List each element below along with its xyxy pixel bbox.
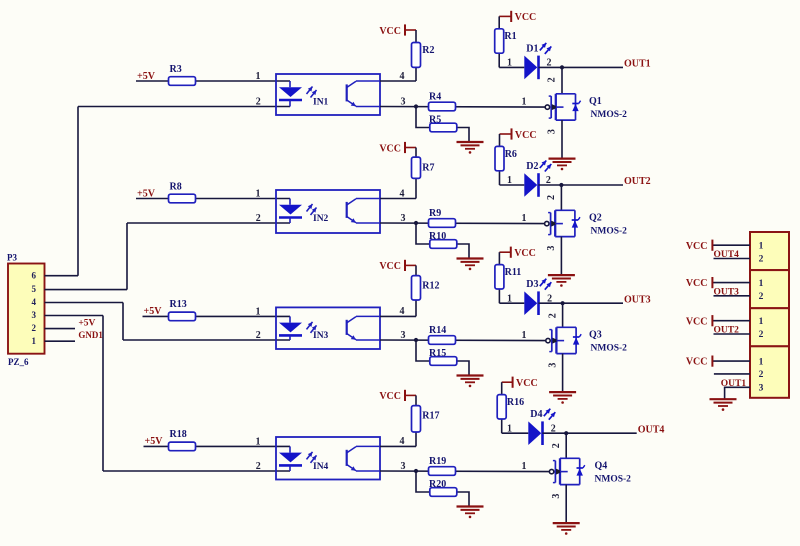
svg-text:D3: D3 (526, 279, 538, 290)
svg-text:2: 2 (759, 330, 764, 340)
svg-text:Q4: Q4 (595, 460, 608, 471)
svg-text:IN2: IN2 (313, 214, 329, 224)
svg-text:3: 3 (401, 330, 406, 341)
svg-text:VCC: VCC (379, 26, 401, 37)
svg-text:R19: R19 (429, 456, 446, 467)
svg-text:R13: R13 (170, 299, 187, 310)
svg-text:OUT1: OUT1 (624, 59, 651, 70)
svg-text:1: 1 (759, 357, 764, 367)
svg-text:R16: R16 (507, 397, 524, 408)
svg-text:VCC: VCC (686, 278, 708, 289)
svg-text:OUT4: OUT4 (638, 424, 665, 435)
svg-text:2: 2 (547, 77, 558, 82)
svg-text:3: 3 (551, 494, 562, 499)
svg-text:2: 2 (759, 255, 764, 265)
svg-text:2: 2 (546, 195, 557, 200)
svg-text:R20: R20 (429, 479, 446, 490)
svg-text:D4: D4 (530, 409, 542, 420)
svg-text:OUT4: OUT4 (714, 250, 740, 260)
svg-text:1: 1 (256, 189, 261, 200)
svg-text:VCC: VCC (379, 261, 401, 272)
svg-text:PZ_6: PZ_6 (8, 357, 29, 367)
svg-text:OUT3: OUT3 (714, 287, 740, 297)
svg-text:D2: D2 (526, 161, 538, 172)
svg-text:R1: R1 (504, 31, 516, 42)
svg-text:1: 1 (522, 330, 527, 341)
svg-text:GND1: GND1 (78, 330, 103, 340)
svg-text:5: 5 (32, 284, 37, 294)
svg-text:3: 3 (759, 384, 764, 394)
svg-text:2: 2 (547, 313, 558, 318)
svg-text:3: 3 (401, 213, 406, 224)
svg-text:R6: R6 (505, 149, 517, 160)
svg-text:VCC: VCC (515, 12, 537, 23)
svg-text:OUT3: OUT3 (624, 294, 651, 305)
svg-text:1: 1 (32, 336, 37, 346)
svg-text:1: 1 (759, 279, 764, 289)
svg-text:VCC: VCC (514, 248, 536, 259)
svg-text:R9: R9 (429, 208, 441, 219)
svg-text:3: 3 (546, 246, 557, 251)
svg-text:R7: R7 (422, 163, 434, 174)
svg-text:D1: D1 (526, 43, 538, 54)
svg-text:1: 1 (759, 317, 764, 327)
svg-text:OUT1: OUT1 (721, 379, 747, 389)
svg-text:1: 1 (522, 461, 527, 472)
svg-text:2: 2 (256, 213, 261, 224)
svg-text:1: 1 (256, 307, 261, 318)
svg-text:3: 3 (547, 129, 558, 134)
svg-text:+5V: +5V (144, 306, 163, 317)
svg-text:3: 3 (547, 363, 558, 368)
svg-text:2: 2 (256, 461, 261, 472)
svg-text:3: 3 (32, 310, 37, 320)
svg-text:VCC: VCC (379, 391, 401, 402)
svg-text:NMOS-2: NMOS-2 (591, 110, 628, 120)
svg-text:3: 3 (401, 97, 406, 108)
svg-text:R11: R11 (505, 267, 522, 278)
svg-text:4: 4 (400, 71, 405, 82)
svg-text:2: 2 (759, 370, 764, 380)
svg-text:2: 2 (551, 443, 562, 448)
svg-text:R3: R3 (170, 64, 182, 75)
svg-text:1: 1 (256, 437, 261, 448)
svg-text:R5: R5 (429, 115, 441, 126)
svg-text:Q3: Q3 (589, 329, 602, 340)
svg-text:R2: R2 (422, 45, 434, 56)
svg-text:VCC: VCC (515, 130, 537, 141)
svg-text:VCC: VCC (516, 378, 538, 389)
svg-text:2: 2 (256, 330, 261, 341)
svg-text:3: 3 (401, 461, 406, 472)
svg-text:2: 2 (32, 323, 37, 333)
svg-text:1: 1 (522, 213, 527, 224)
svg-text:R8: R8 (170, 181, 182, 192)
svg-text:OUT2: OUT2 (624, 176, 651, 187)
svg-text:NMOS-2: NMOS-2 (591, 343, 628, 353)
svg-text:VCC: VCC (686, 357, 708, 368)
svg-text:VCC: VCC (686, 241, 708, 252)
svg-text:Q2: Q2 (589, 212, 602, 223)
svg-text:1: 1 (522, 97, 527, 108)
svg-text:NMOS-2: NMOS-2 (595, 474, 632, 484)
svg-text:+5V: +5V (145, 436, 164, 447)
svg-text:2: 2 (256, 97, 261, 108)
svg-text:NMOS-2: NMOS-2 (591, 226, 628, 236)
svg-text:4: 4 (400, 436, 405, 447)
svg-text:VCC: VCC (686, 316, 708, 327)
svg-text:4: 4 (400, 306, 405, 317)
svg-text:P3: P3 (7, 253, 17, 263)
svg-text:6: 6 (32, 270, 37, 280)
svg-text:IN4: IN4 (313, 462, 329, 472)
svg-text:R18: R18 (170, 429, 187, 440)
svg-text:4: 4 (400, 188, 405, 199)
svg-text:OUT2: OUT2 (714, 325, 740, 335)
svg-text:R4: R4 (429, 92, 441, 103)
svg-text:R17: R17 (422, 410, 439, 421)
svg-text:+5V: +5V (137, 71, 156, 82)
svg-text:IN3: IN3 (313, 331, 329, 341)
svg-text:Q1: Q1 (589, 96, 602, 107)
svg-text:4: 4 (32, 297, 37, 307)
svg-text:R14: R14 (429, 325, 446, 336)
svg-text:R12: R12 (422, 280, 439, 291)
svg-text:R15: R15 (429, 348, 446, 359)
svg-text:R10: R10 (429, 231, 446, 242)
svg-text:1: 1 (759, 241, 764, 251)
svg-text:+5V: +5V (137, 188, 156, 199)
svg-text:+5V: +5V (78, 318, 95, 328)
svg-text:IN1: IN1 (313, 98, 329, 108)
svg-text:1: 1 (256, 71, 261, 82)
svg-text:VCC: VCC (379, 143, 401, 154)
svg-text:2: 2 (759, 292, 764, 302)
